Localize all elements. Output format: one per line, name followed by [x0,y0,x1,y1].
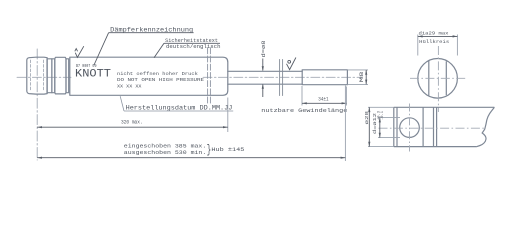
circle view Huellkreis [418,59,458,99]
svg-text:34±1: 34±1 [318,97,328,103]
ring lines [422,107,424,146]
surface finish symbol on rod [287,58,296,70]
detail horizontal centerline [379,127,487,129]
groove line [396,107,398,146]
outline top [394,106,495,108]
detail vertical centerline [409,104,411,152]
buffer ring 2 [52,59,55,93]
circle view vertical centerline [437,46,439,112]
chord line left [428,61,430,96]
svg-text:320 max.: 320 max. [121,119,143,125]
dimension d=ø8 on rod [262,59,264,98]
piston rod [228,70,302,72]
outline bottom [394,146,477,148]
svg-text:Hüllkreis: Hüllkreis [419,39,449,45]
vertical centerline buffer axis [36,49,38,160]
buffer hidden line right [43,60,45,91]
svg-text:ø28: ø28 [364,111,370,125]
eye hole [400,118,420,138]
leader to marking [94,33,109,65]
svg-text:-0.1: -0.1 [381,111,385,120]
svg-text:XX XX XX: XX XX XX [117,83,142,89]
svg-text:DO NOT OPEN HIGH PRESSURE: DO NOT OPEN HIGH PRESSURE [117,77,204,83]
buffer ring collar [66,59,69,93]
svg-text:Hub ±145: Hub ±145 [211,146,245,153]
dimension Hub eingeschoben/ausgeschoben [37,86,345,162]
svg-text:nicht oeffnen hoher Druck: nicht oeffnen hoher Druck [117,71,198,77]
dimension M8 at thread end [347,70,368,85]
label edge dashed line 1 [207,48,209,105]
leader to label edge [154,43,164,58]
detail view eye end [394,107,495,146]
buffer ring big [55,57,66,94]
break line [477,107,495,146]
envelope circle [418,59,458,99]
svg-text:ausgeschoben 530 min.: ausgeschoben 530 min. [124,149,207,156]
thread section [302,70,347,85]
svg-text:nutzbare Gewindelänge: nutzbare Gewindelänge [261,107,347,114]
chord line right [445,61,447,95]
buffer barrel [27,57,47,94]
dimension 320 max [37,98,228,133]
dimension d=12 [378,118,400,138]
leader to tube bottom [120,96,124,111]
buffer hidden line left [30,60,32,91]
svg-text:Herstellungsdatum DD.MM.JJ: Herstellungsdatum DD.MM.JJ [126,104,233,111]
buffer ring 1 [47,59,52,93]
left edge [393,107,395,146]
surface finish symbol on tube [75,46,84,57]
svg-text:M8: M8 [359,72,365,83]
circle view horizontal centerline [410,77,466,79]
label edge dashed line 2 [209,48,211,105]
main horizontal centerline [17,76,71,78]
dimension dia29 max [418,35,458,56]
dimension o28 [368,107,394,146]
rod groove pair [279,60,281,96]
tube body [70,57,228,95]
svg-text:KNOTT: KNOTT [75,68,111,80]
svg-text:dia29 max: dia29 max [419,31,449,37]
svg-text:d=ø8: d=ø8 [261,41,267,58]
dimension 34+-1 thread length [302,86,346,106]
svg-text:deutsch/englisch: deutsch/englisch [166,44,221,50]
